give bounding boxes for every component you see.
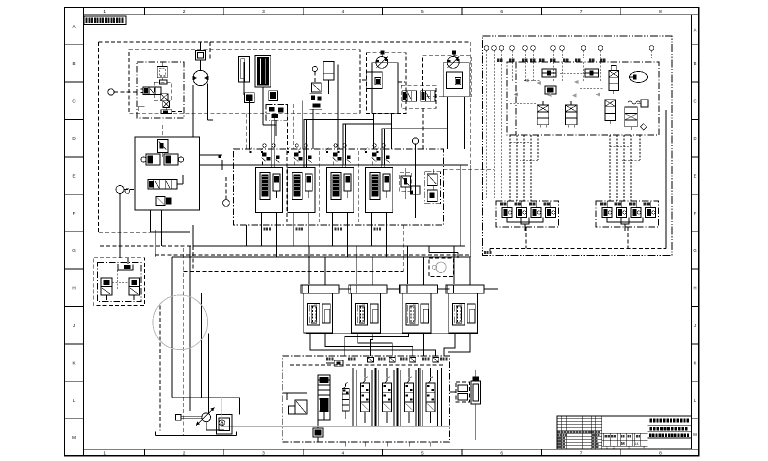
svg-text:7: 7	[580, 451, 583, 457]
manifold cartridge MC3	[405, 368, 414, 423]
cylinder feed wires	[309, 246, 470, 285]
pilot filter F1	[157, 62, 167, 78]
svg-text:A: A	[694, 28, 697, 33]
pilot valve V5	[605, 100, 615, 124]
svg-text:M: M	[693, 432, 697, 437]
valve section S2 pilot circles	[295, 144, 307, 147]
bus wire lower	[172, 257, 471, 398]
bank outlet risers	[461, 165, 471, 257]
slew ring circle	[153, 295, 208, 350]
section feed pair wires	[272, 117, 385, 165]
svg-text:E: E	[72, 173, 75, 178]
electric motor EM	[217, 415, 233, 434]
title block revision table	[557, 416, 648, 449]
breather component	[456, 382, 470, 402]
port circle b1	[312, 66, 317, 83]
return check valve V2	[312, 83, 322, 92]
tank drain wire	[302, 101, 304, 149]
pump unit gray wires	[220, 398, 222, 427]
left solenoid block enclosure	[94, 258, 145, 306]
joystick valve group J2 enclosure	[596, 201, 659, 227]
regulator box frame	[135, 137, 200, 210]
main machine dashed enclosure top	[99, 41, 471, 43]
bank bottom labels	[264, 228, 381, 231]
svg-text:2: 2	[183, 451, 186, 457]
svg-text:3: 3	[262, 451, 265, 457]
valve section S4 port drop wires	[372, 225, 387, 257]
left zone letter column line	[83, 7, 85, 456]
upper sub enclosure dashed	[129, 50, 360, 114]
shuttle block SB2	[585, 69, 599, 77]
hydraulic tank T1	[323, 62, 338, 149]
pedal valve V3	[537, 101, 549, 128]
pilot orifice block	[160, 78, 168, 84]
svg-text:M: M	[621, 441, 625, 446]
title block middle text	[605, 435, 646, 449]
cylinder C3 barrel	[399, 285, 449, 293]
charging valve cluster	[263, 104, 288, 136]
svg-text:H: H	[693, 286, 696, 291]
upper long wires	[250, 95, 314, 149]
main valve bank enclosure	[234, 149, 444, 225]
cylinder C2 valve block	[352, 293, 381, 333]
manifold top-left port box	[326, 360, 343, 366]
valve section S2 port drop wires	[294, 225, 309, 257]
swivel joint component	[429, 246, 458, 277]
pilot group port notch	[138, 107, 184, 112]
cylinder C3 slit	[421, 304, 429, 323]
valve section S3 work ports	[333, 212, 348, 225]
spool valve enclosure	[401, 85, 436, 108]
title block revision text	[558, 431, 601, 448]
cylinder C4 valve block	[449, 293, 478, 333]
pilot check valve X2	[163, 101, 170, 108]
cylinder C4 slit	[467, 304, 475, 323]
main pump P1	[376, 51, 388, 69]
bank relief valve RV1	[400, 168, 412, 199]
svg-text:6: 6	[500, 9, 503, 15]
left zone letters	[72, 24, 76, 440]
title block company name	[650, 418, 690, 422]
valve section S2 work ports	[294, 212, 309, 225]
manifold cartridge MC1	[361, 368, 370, 423]
manifold bottom stubs	[345, 442, 431, 446]
svg-text:J: J	[694, 323, 696, 328]
bus wire dashed	[184, 225, 404, 272]
accumulator block B2	[269, 91, 278, 101]
feeder staircase pump A1	[304, 113, 374, 165]
valve section S3 body	[327, 168, 354, 213]
manifold feed bracket G	[444, 333, 455, 356]
left block inner wires	[112, 270, 129, 290]
spool valve SV1	[402, 91, 416, 102]
svg-text:J: J	[73, 323, 75, 328]
svg-text:F: F	[73, 211, 76, 216]
accumulator block B1	[244, 93, 254, 103]
joystick valve group J2 valves	[602, 201, 656, 231]
enclosure drop wire C	[246, 114, 248, 149]
left solenoid block top detail	[118, 258, 133, 270]
gear pump M1	[193, 60, 208, 86]
svg-text:B: B	[72, 61, 75, 66]
manifold bottom valve	[313, 420, 323, 442]
valve section S4 pilot circles	[373, 144, 385, 147]
valve section S3 feed pair inside	[343, 165, 346, 167]
valve section S2 feed pair inside	[304, 165, 307, 167]
feeder staircase pump B1	[382, 97, 448, 165]
breather link wires	[450, 392, 476, 440]
pilot control box enclosure	[483, 36, 672, 256]
pump A wires	[374, 82, 406, 149]
cylinder C2 holding valve	[356, 303, 368, 325]
joystick valve group J1 valves	[502, 201, 556, 231]
pilot box feeder dashed verticals	[510, 135, 640, 201]
main pump P2	[447, 51, 459, 69]
manifold feed bracket F	[422, 333, 424, 356]
pump A enclosure	[367, 53, 407, 114]
manifold top dashed rail	[290, 364, 445, 366]
pilot inner dashed box	[154, 82, 172, 100]
port circle c1	[116, 186, 135, 194]
cylinder C2 slit	[370, 304, 378, 323]
return filter column	[471, 370, 481, 412]
manifold feed bracket C	[358, 333, 392, 356]
main machine dashed enclosure right	[470, 42, 472, 169]
valve section S1 port drop wires	[262, 225, 277, 257]
valve section S1 spool	[260, 173, 280, 200]
svg-text:F: F	[694, 211, 697, 216]
regulator solenoid pair	[141, 154, 184, 165]
svg-text:L: L	[73, 398, 76, 403]
title block drawing title	[650, 427, 688, 431]
title block frame	[557, 416, 692, 449]
title block name rows	[648, 425, 692, 438]
zone numbers bottom	[103, 451, 662, 457]
pilot relief PV1	[609, 66, 619, 95]
suction filter F2	[196, 42, 206, 60]
pilot reducing spool	[141, 87, 162, 95]
cylinder C1 barrel	[301, 285, 351, 293]
accumulator A1	[239, 57, 250, 95]
svg-text:4: 4	[342, 9, 345, 15]
bank section divider 2	[318, 151, 320, 222]
pump M1 drain lines	[193, 84, 213, 137]
pilot outlet block	[161, 107, 172, 113]
svg-text:M: M	[72, 435, 76, 440]
svg-text:8: 8	[659, 451, 662, 457]
valve section S3 port drop wires	[333, 225, 348, 257]
manifold cartridge MC4	[426, 368, 435, 423]
main machine dashed enclosure left	[98, 42, 100, 232]
pilot gauge ellipse	[630, 72, 648, 83]
manifold inlet checks	[368, 358, 439, 363]
pilot squiggle valve	[628, 100, 648, 107]
top zone number row line	[84, 14, 699, 16]
valve section S4 feed pair inside	[382, 165, 385, 167]
left bus dashed lead-in	[100, 245, 193, 247]
valve section S2 pilot caps	[294, 153, 312, 166]
svg-text:8: 8	[659, 9, 662, 15]
svg-text:K: K	[694, 360, 697, 365]
regulator wires	[151, 125, 223, 232]
main pressure gallery wire	[219, 156, 469, 171]
cylinder C1 slit	[322, 304, 330, 323]
right zone dividers	[692, 45, 699, 419]
pump B solid body box	[443, 63, 469, 97]
svg-text:3: 3	[262, 9, 265, 15]
bank section divider 3	[357, 151, 359, 222]
pump P1 regulator	[362, 72, 382, 89]
manifold pilot valve PV	[342, 382, 349, 419]
svg-text:B: B	[694, 61, 697, 66]
joystick group J1 labels	[500, 202, 550, 205]
right zone letters	[693, 28, 697, 437]
regulator pilot valve	[158, 140, 169, 158]
svg-text:D: D	[693, 136, 696, 141]
shuttle block SB1	[542, 69, 556, 77]
port circle a1	[108, 89, 137, 95]
manifold cartridge MC1 flank wires	[353, 368, 376, 427]
aux pump coupling	[176, 415, 202, 421]
svg-text:H: H	[72, 286, 75, 291]
spool valve SV2	[421, 91, 435, 102]
bank port circle left	[223, 175, 230, 206]
aux pump P3	[196, 408, 215, 426]
pilot check valve X1	[160, 94, 168, 101]
cylinder C4 holding valve	[453, 303, 465, 325]
regulator main spool	[148, 175, 183, 189]
svg-text:5: 5	[421, 9, 424, 15]
manifold cartridge MC3 flank wires	[397, 368, 420, 427]
title block drawing number	[649, 433, 689, 437]
manifold feed bracket B	[325, 333, 413, 356]
valve section S1 pilot circles	[263, 144, 275, 147]
manifold feed bracket E	[345, 333, 409, 356]
bank top port ticks	[249, 148, 379, 154]
enclosure drop wire B	[292, 104, 294, 149]
feeder staircase pump A2	[343, 113, 392, 165]
pilot valve V6	[625, 107, 647, 130]
pump B enclosure	[423, 56, 472, 97]
valve section S2 body	[288, 168, 315, 213]
manifold cartridge MC2 flank wires	[375, 368, 398, 427]
main machine dashed enclosure bottom	[155, 254, 471, 256]
svg-text:1: 1	[103, 451, 106, 457]
title block middle cells	[602, 433, 648, 446]
pilot valve group enclosure	[137, 62, 184, 118]
manifold cartridge MC2	[383, 368, 392, 423]
pump P2 regulator	[447, 72, 463, 89]
valve section S3 pilot caps	[333, 153, 351, 166]
cylinder lower bus wire	[306, 333, 478, 335]
svg-text:4: 4	[342, 451, 345, 457]
regulator drain valve	[156, 197, 172, 206]
cylinder C1 valve block	[304, 293, 333, 333]
bank right link dashed	[443, 168, 494, 170]
valve section S1 work ports	[262, 212, 277, 225]
manifold feed bracket H	[448, 333, 470, 352]
svg-text:2: 2	[183, 9, 186, 15]
bank relief valve RV2	[425, 169, 441, 204]
bottom zone number row line	[84, 448, 699, 450]
tank outlet wire	[328, 80, 330, 94]
enclosure left L-turn dashed	[99, 231, 151, 233]
valve section S3 pilot circles	[334, 144, 346, 147]
svg-text:7: 7	[580, 9, 583, 15]
cylinder C4 barrel	[446, 285, 498, 293]
manifold gray rail	[221, 398, 450, 427]
valve section S4 body	[366, 168, 393, 213]
enclosure drop wire A	[286, 104, 288, 149]
left drop wires	[160, 246, 202, 436]
manifold feed bracket A	[310, 333, 436, 356]
valve section S2 spool	[292, 173, 312, 200]
svg-text:C: C	[693, 99, 696, 104]
bank aux valve RV1b	[410, 186, 420, 194]
valve section S1 body	[256, 168, 283, 213]
svg-text:G: G	[72, 248, 76, 253]
left dashed riser	[151, 230, 191, 257]
bank section divider 1	[286, 151, 288, 222]
manifold relief small	[283, 393, 307, 414]
pilot box lower dashed wires	[484, 110, 666, 254]
pilot box port circles	[484, 46, 654, 198]
left solenoid valve LV1	[101, 278, 112, 300]
pump drop dashed wire	[209, 42, 211, 60]
valve section S3 spool	[331, 173, 351, 200]
bottom zone number dividers	[144, 449, 620, 456]
left solenoid valve LV2	[129, 278, 140, 300]
svg-text:14: 14	[635, 442, 639, 446]
svg-text:G: G	[693, 248, 696, 253]
pilot box port riser wires	[512, 62, 601, 82]
pilot box internal wires	[510, 62, 604, 135]
valve section S4 spool	[370, 173, 390, 200]
right zone letter column line	[691, 15, 693, 450]
manifold cartridge MC4 flank wires	[419, 368, 442, 427]
accumulator A2 (charged)	[255, 56, 271, 104]
bus wire upper	[193, 225, 465, 246]
port c1 drop wire	[119, 194, 121, 258]
svg-text:E: E	[694, 173, 697, 178]
bank port circle top	[412, 138, 418, 218]
valve section S4 pilot caps	[372, 153, 390, 166]
pedal valve V4	[565, 101, 577, 128]
joystick valve group J1 enclosure	[496, 201, 559, 227]
svg-text:1: 1	[103, 9, 106, 15]
top zone number dividers	[144, 7, 620, 14]
zone numbers top	[103, 9, 662, 15]
drawing number label box	[84, 16, 126, 25]
valve section S1 feed pair inside	[272, 165, 275, 167]
svg-text:5: 5	[421, 451, 424, 457]
pump B wires	[423, 97, 465, 149]
manifold feed bracket D	[371, 333, 373, 356]
valve section S1 pilot caps	[262, 153, 280, 166]
pilot gray arrows	[513, 79, 600, 98]
cylinder C3 valve block	[402, 293, 431, 333]
manifold inlet labels	[326, 358, 447, 361]
left zone dividers	[65, 45, 84, 419]
pilot box port labels	[497, 59, 605, 62]
cylinder C1 holding valve	[308, 303, 320, 325]
svg-text:6: 6	[500, 451, 503, 457]
return filter cluster	[310, 94, 323, 110]
aux pump wires	[172, 334, 239, 415]
joystick group J2 labels	[600, 202, 650, 205]
tank rail	[156, 422, 237, 436]
cylinder C3 holding valve	[406, 303, 418, 325]
pump A solid body box	[372, 63, 398, 113]
valve section S4 work ports	[372, 212, 387, 225]
cylinder C2 barrel	[349, 285, 399, 293]
small valve SB3	[545, 86, 556, 94]
lower manifold enclosure	[283, 356, 450, 442]
pilot inner enclosure	[507, 62, 659, 135]
manifold accumulator	[318, 375, 330, 420]
